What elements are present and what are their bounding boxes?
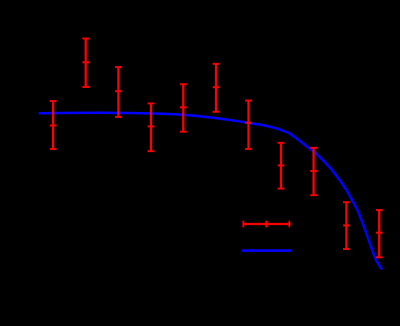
error bar point 2 (x=85.7) xyxy=(82,39,89,88)
data points with error bars (red) xyxy=(50,39,383,258)
error bar point 4 (x=151.0) xyxy=(148,103,155,151)
legend: data errorbar sample (red) xyxy=(242,221,290,228)
error bar point 10 (x=346.4) xyxy=(343,202,350,249)
error bar point 3 (x=118.4) xyxy=(115,67,122,117)
error bar point 9 (x=313.6) xyxy=(310,148,317,195)
error bar point 1 (x=53.1) xyxy=(50,101,57,149)
error bar point 5 (x=183.3) xyxy=(180,84,187,132)
error bar point 7 (x=248.5) xyxy=(245,101,252,150)
error bar point 11 (x=379.2) xyxy=(376,210,383,257)
error bar point 8 (x=281.0) xyxy=(278,143,285,189)
legend: fit line sample (blue) xyxy=(242,249,291,252)
error bar point 6 (x=216.0) xyxy=(213,64,220,112)
fitted curve (blue) xyxy=(40,113,382,269)
